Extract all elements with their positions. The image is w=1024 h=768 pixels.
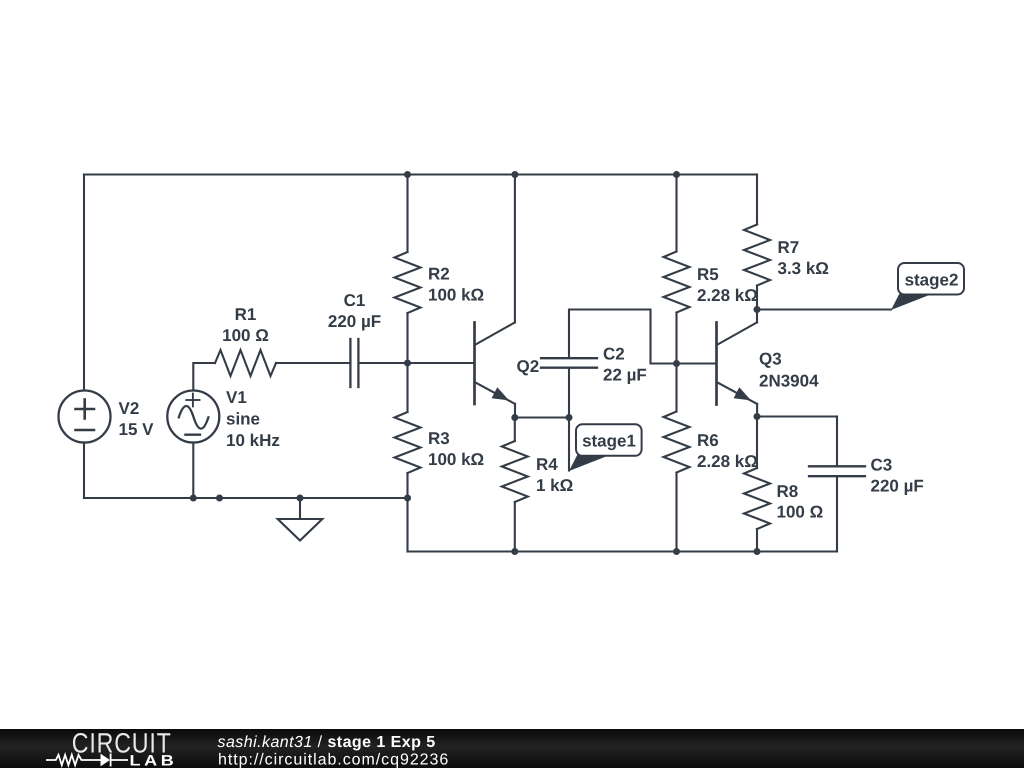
svg-text:1 kΩ: 1 kΩ [536, 476, 573, 495]
svg-text:100 Ω: 100 Ω [777, 503, 824, 522]
svg-text:2.28 kΩ: 2.28 kΩ [697, 452, 758, 471]
svg-text:100 Ω: 100 Ω [222, 326, 269, 345]
svg-text:15 V: 15 V [119, 420, 155, 439]
svg-text:C2: C2 [603, 345, 625, 364]
svg-text:LAB: LAB [130, 752, 178, 768]
svg-text:C3: C3 [871, 456, 893, 475]
svg-text:100 kΩ: 100 kΩ [428, 450, 484, 469]
svg-text:V2: V2 [119, 399, 140, 418]
svg-text:2N3904: 2N3904 [759, 372, 819, 391]
svg-text:2.28 kΩ: 2.28 kΩ [697, 286, 758, 305]
svg-text:R8: R8 [777, 482, 799, 501]
svg-text:22 µF: 22 µF [603, 366, 647, 385]
svg-text:R2: R2 [428, 265, 450, 284]
svg-text:100 kΩ: 100 kΩ [428, 286, 484, 305]
svg-text:220 µF: 220 µF [871, 477, 924, 496]
svg-text:220 µF: 220 µF [328, 312, 381, 331]
svg-text:stage1: stage1 [582, 432, 636, 451]
svg-text:R4: R4 [536, 455, 558, 474]
svg-text:stage2: stage2 [905, 271, 959, 290]
svg-text:Q3: Q3 [759, 350, 782, 369]
svg-text:sashi.kant31 / stage 1 Exp 5: sashi.kant31 / stage 1 Exp 5 [218, 734, 436, 751]
svg-text:R7: R7 [778, 238, 800, 257]
svg-text:R5: R5 [697, 265, 719, 284]
svg-text:V1: V1 [226, 388, 247, 407]
svg-text:R6: R6 [697, 431, 719, 450]
svg-text:10 kHz: 10 kHz [226, 431, 280, 450]
svg-text:sine: sine [226, 410, 260, 429]
svg-text:R1: R1 [235, 305, 257, 324]
svg-text:C1: C1 [344, 291, 366, 310]
svg-text:R3: R3 [428, 429, 450, 448]
svg-text:http://circuitlab.com/cq92236: http://circuitlab.com/cq92236 [218, 752, 449, 768]
svg-text:Q2: Q2 [517, 357, 540, 376]
svg-text:3.3 kΩ: 3.3 kΩ [778, 259, 829, 278]
